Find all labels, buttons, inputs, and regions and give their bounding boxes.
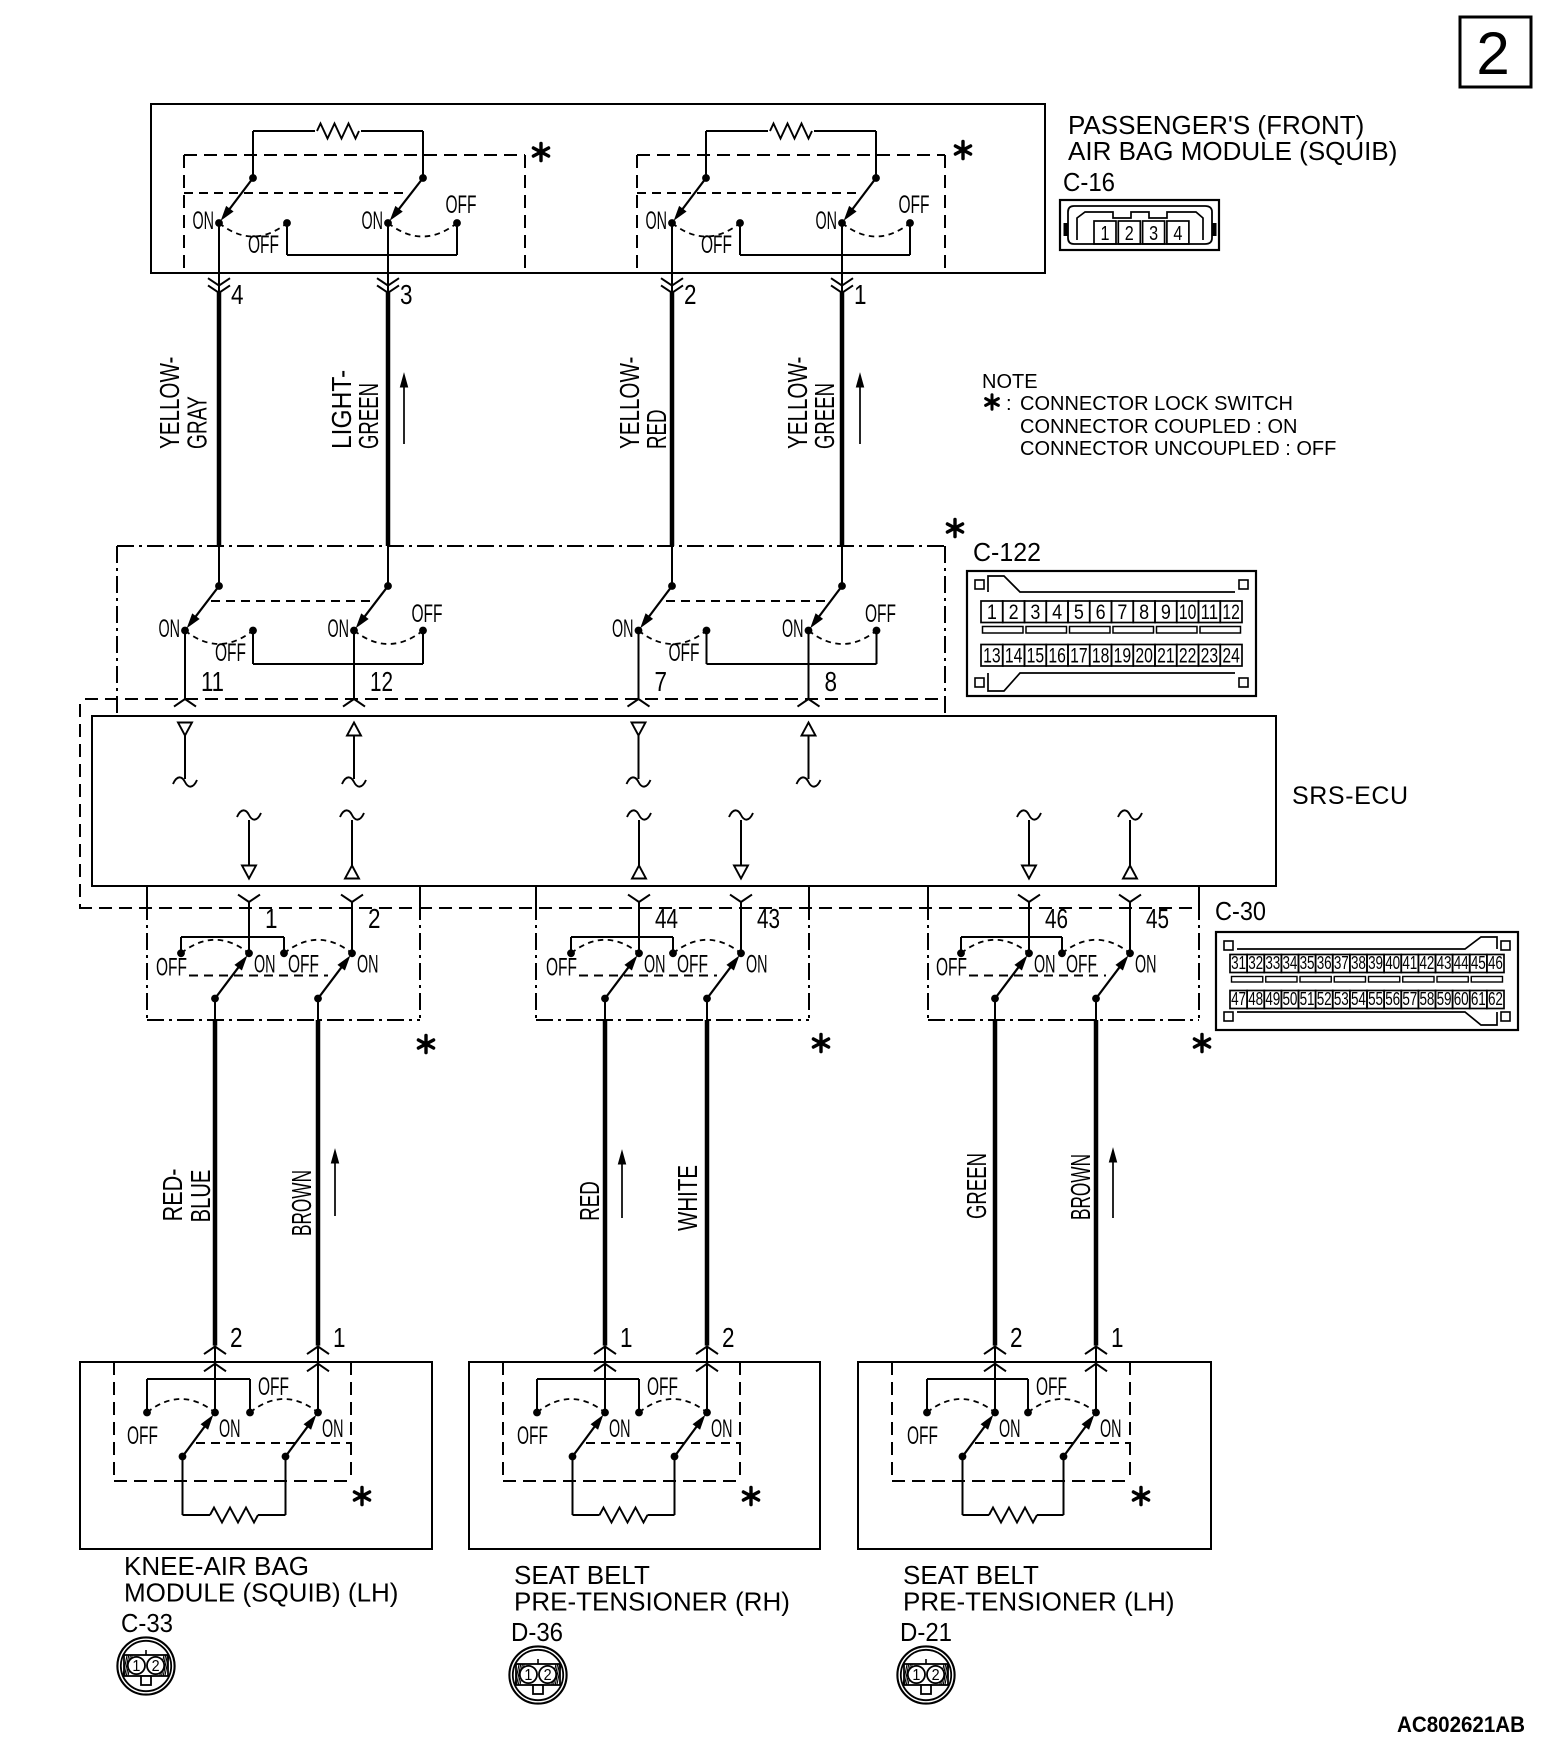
svg-text:45: 45 xyxy=(1471,953,1486,973)
svg-text:OFF: OFF xyxy=(517,1422,548,1450)
svg-text:ON: ON xyxy=(711,1415,733,1443)
svg-text:2: 2 xyxy=(932,1667,940,1684)
svg-text:12: 12 xyxy=(1222,601,1240,624)
svg-text:1: 1 xyxy=(620,1322,633,1353)
svg-text:KNEE-AIR BAG: KNEE-AIR BAG xyxy=(124,1551,309,1581)
svg-text:19: 19 xyxy=(1114,645,1132,668)
svg-text:OFF: OFF xyxy=(215,639,246,667)
svg-text:ON: ON xyxy=(357,951,379,979)
svg-text:4: 4 xyxy=(1052,601,1062,624)
svg-text:CONNECTOR LOCK SWITCH: CONNECTOR LOCK SWITCH xyxy=(1020,393,1293,415)
svg-text:ON: ON xyxy=(609,1415,631,1443)
svg-text:BLUE: BLUE xyxy=(185,1170,216,1223)
svg-text:40: 40 xyxy=(1385,953,1400,973)
svg-text:4: 4 xyxy=(1173,223,1182,245)
svg-text:SRS-ECU: SRS-ECU xyxy=(1292,782,1409,810)
svg-text:13: 13 xyxy=(983,645,1001,668)
svg-text:ON: ON xyxy=(328,615,350,643)
svg-text:6: 6 xyxy=(1096,601,1106,624)
svg-text:BROWN: BROWN xyxy=(286,1170,317,1236)
svg-text:2: 2 xyxy=(230,1322,243,1353)
svg-text:1: 1 xyxy=(265,903,278,934)
svg-text:GREEN: GREEN xyxy=(809,383,840,449)
svg-text:47: 47 xyxy=(1231,989,1246,1009)
svg-text:2: 2 xyxy=(368,903,381,934)
svg-text:16: 16 xyxy=(1048,645,1066,668)
svg-text:37: 37 xyxy=(1334,953,1349,973)
svg-text:59: 59 xyxy=(1437,989,1452,1009)
svg-text:MODULE (SQUIB) (LH): MODULE (SQUIB) (LH) xyxy=(124,1578,398,1608)
svg-text:5: 5 xyxy=(1074,601,1084,624)
svg-text:GREEN: GREEN xyxy=(353,383,384,449)
svg-text:43: 43 xyxy=(1437,953,1452,973)
svg-text:12: 12 xyxy=(370,666,393,697)
svg-text:53: 53 xyxy=(1334,989,1349,1009)
svg-text:1: 1 xyxy=(854,279,867,310)
svg-text:ON: ON xyxy=(159,615,181,643)
svg-text:ON: ON xyxy=(644,951,666,979)
svg-text:14: 14 xyxy=(1005,645,1023,668)
svg-text:48: 48 xyxy=(1248,989,1263,1009)
svg-text:8: 8 xyxy=(1139,601,1149,624)
svg-text:RED: RED xyxy=(574,1181,605,1221)
svg-text:ON: ON xyxy=(219,1415,241,1443)
svg-text:49: 49 xyxy=(1265,989,1280,1009)
svg-text:3: 3 xyxy=(1149,223,1158,245)
svg-text:1: 1 xyxy=(333,1322,346,1353)
svg-text:44: 44 xyxy=(655,903,678,934)
svg-text:OFF: OFF xyxy=(865,600,896,628)
svg-text:OFF: OFF xyxy=(248,231,279,259)
svg-text:1: 1 xyxy=(132,1658,140,1675)
svg-text:3: 3 xyxy=(400,279,413,310)
svg-text:OFF: OFF xyxy=(936,954,967,982)
svg-text:OFF: OFF xyxy=(907,1422,938,1450)
svg-text:54: 54 xyxy=(1351,989,1366,1009)
svg-text:ON: ON xyxy=(746,951,768,979)
svg-text:GREEN: GREEN xyxy=(961,1153,992,1219)
svg-text:11: 11 xyxy=(201,666,224,697)
svg-text:2: 2 xyxy=(1125,223,1134,245)
svg-text:ON: ON xyxy=(1100,1415,1122,1443)
svg-text:1: 1 xyxy=(1101,223,1110,245)
svg-text:D-21: D-21 xyxy=(900,1617,952,1647)
svg-text:NOTE: NOTE xyxy=(982,371,1038,393)
svg-text::: : xyxy=(1006,393,1012,415)
svg-text:SEAT BELT: SEAT BELT xyxy=(903,1560,1039,1590)
svg-text:OFF: OFF xyxy=(412,600,443,628)
svg-text:RED-: RED- xyxy=(157,1169,188,1222)
svg-text:50: 50 xyxy=(1282,989,1297,1009)
svg-text:20: 20 xyxy=(1135,645,1153,668)
svg-text:11: 11 xyxy=(1201,601,1219,624)
svg-text:OFF: OFF xyxy=(647,1373,678,1401)
svg-text:C-122: C-122 xyxy=(973,537,1041,567)
svg-text:38: 38 xyxy=(1351,953,1366,973)
svg-text:7: 7 xyxy=(1117,601,1127,624)
svg-text:C-16: C-16 xyxy=(1063,167,1115,197)
svg-text:17: 17 xyxy=(1070,645,1088,668)
svg-text:10: 10 xyxy=(1179,601,1197,624)
svg-text:SEAT BELT: SEAT BELT xyxy=(514,1560,650,1590)
svg-text:WHITE: WHITE xyxy=(672,1165,703,1231)
svg-text:46: 46 xyxy=(1045,903,1068,934)
svg-text:24: 24 xyxy=(1222,645,1240,668)
svg-text:18: 18 xyxy=(1092,645,1110,668)
svg-text:ON: ON xyxy=(646,207,668,235)
svg-text:ON: ON xyxy=(816,207,838,235)
svg-text:OFF: OFF xyxy=(1036,1373,1067,1401)
svg-text:2: 2 xyxy=(544,1667,552,1684)
svg-text:56: 56 xyxy=(1385,989,1400,1009)
svg-text:1: 1 xyxy=(912,1667,920,1684)
svg-text:OFF: OFF xyxy=(899,191,930,219)
svg-text:CONNECTOR UNCOUPLED : OFF: CONNECTOR UNCOUPLED : OFF xyxy=(1020,438,1336,460)
svg-text:OFF: OFF xyxy=(258,1373,289,1401)
svg-text:23: 23 xyxy=(1201,645,1219,668)
svg-text:AC802621AB: AC802621AB xyxy=(1397,1712,1525,1737)
svg-text:61: 61 xyxy=(1471,989,1486,1009)
svg-text:34: 34 xyxy=(1282,953,1297,973)
svg-text:22: 22 xyxy=(1179,645,1197,668)
svg-text:C-33: C-33 xyxy=(121,1608,173,1638)
svg-text:OFF: OFF xyxy=(156,954,187,982)
svg-text:33: 33 xyxy=(1265,953,1280,973)
svg-text:OFF: OFF xyxy=(669,639,700,667)
svg-text:AIR BAG MODULE (SQUIB): AIR BAG MODULE (SQUIB) xyxy=(1068,136,1397,166)
svg-text:2: 2 xyxy=(152,1658,160,1675)
svg-text:PRE-TENSIONER (LH): PRE-TENSIONER (LH) xyxy=(903,1587,1175,1617)
svg-text:OFF: OFF xyxy=(677,951,708,979)
svg-text:60: 60 xyxy=(1454,989,1469,1009)
svg-text:OFF: OFF xyxy=(1066,951,1097,979)
svg-text:GRAY: GRAY xyxy=(182,396,213,449)
svg-text:OFF: OFF xyxy=(446,191,477,219)
svg-text:2: 2 xyxy=(1010,1322,1023,1353)
svg-text:39: 39 xyxy=(1368,953,1383,973)
svg-text:ON: ON xyxy=(362,207,384,235)
svg-text:41: 41 xyxy=(1402,953,1417,973)
svg-text:51: 51 xyxy=(1300,989,1315,1009)
svg-text:ON: ON xyxy=(612,615,634,643)
svg-text:31: 31 xyxy=(1231,953,1246,973)
svg-text:ON: ON xyxy=(322,1415,344,1443)
svg-text:ON: ON xyxy=(999,1415,1021,1443)
svg-text:15: 15 xyxy=(1027,645,1045,668)
svg-text:OFF: OFF xyxy=(546,954,577,982)
svg-text:2: 2 xyxy=(1009,601,1019,624)
svg-text:62: 62 xyxy=(1488,989,1503,1009)
svg-text:OFF: OFF xyxy=(127,1422,158,1450)
svg-text:RED: RED xyxy=(641,409,672,449)
svg-text:ON: ON xyxy=(193,207,215,235)
svg-text:2: 2 xyxy=(722,1322,735,1353)
svg-text:ON: ON xyxy=(254,951,276,979)
svg-text:58: 58 xyxy=(1419,989,1434,1009)
svg-text:57: 57 xyxy=(1402,989,1417,1009)
svg-text:C-30: C-30 xyxy=(1215,896,1266,926)
svg-text:2: 2 xyxy=(1476,20,1509,87)
svg-text:ON: ON xyxy=(1034,951,1056,979)
svg-text:45: 45 xyxy=(1146,903,1169,934)
svg-text:42: 42 xyxy=(1419,953,1434,973)
svg-text:BROWN: BROWN xyxy=(1065,1154,1096,1220)
svg-text:2: 2 xyxy=(684,279,697,310)
svg-text:OFF: OFF xyxy=(701,231,732,259)
svg-text:OFF: OFF xyxy=(288,951,319,979)
svg-text:3: 3 xyxy=(1030,601,1040,624)
svg-text:46: 46 xyxy=(1488,953,1503,973)
svg-text:7: 7 xyxy=(655,666,668,697)
svg-text:8: 8 xyxy=(825,666,838,697)
svg-text:35: 35 xyxy=(1300,953,1315,973)
svg-text:1: 1 xyxy=(1111,1322,1124,1353)
svg-text:1: 1 xyxy=(987,601,997,624)
svg-text:9: 9 xyxy=(1161,601,1171,624)
svg-text:CONNECTOR COUPLED : ON: CONNECTOR COUPLED : ON xyxy=(1020,416,1297,438)
svg-text:YELLOW-: YELLOW- xyxy=(154,357,185,449)
svg-text:D-36: D-36 xyxy=(511,1617,563,1647)
svg-text:ON: ON xyxy=(782,615,804,643)
svg-text:1: 1 xyxy=(524,1667,532,1684)
svg-text:21: 21 xyxy=(1157,645,1175,668)
svg-text:PRE-TENSIONER (RH): PRE-TENSIONER (RH) xyxy=(514,1587,790,1617)
svg-text:36: 36 xyxy=(1317,953,1332,973)
svg-text:43: 43 xyxy=(757,903,780,934)
svg-text:32: 32 xyxy=(1248,953,1263,973)
svg-text:ON: ON xyxy=(1135,951,1157,979)
svg-text:55: 55 xyxy=(1368,989,1383,1009)
svg-text:52: 52 xyxy=(1317,989,1332,1009)
svg-text:4: 4 xyxy=(231,279,244,310)
svg-text:44: 44 xyxy=(1454,953,1469,973)
